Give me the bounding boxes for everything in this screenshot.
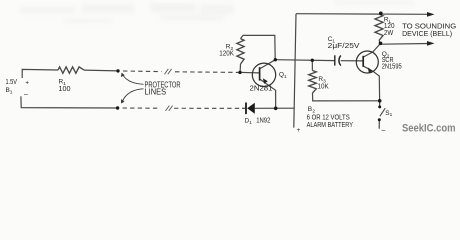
- svg-text:1: 1: [249, 120, 252, 126]
- svg-text:6 OR 12 VOLTS: 6 OR 12 VOLTS: [307, 115, 350, 122]
- svg-text:ALARM BATTERY: ALARM BATTERY: [307, 122, 354, 129]
- svg-text:2N281: 2N281: [250, 86, 273, 93]
- svg-text:1: 1: [390, 112, 393, 118]
- svg-text:+: +: [297, 127, 301, 134]
- svg-text:2W: 2W: [384, 30, 394, 37]
- svg-text:LINES: LINES: [145, 88, 167, 97]
- svg-text:B: B: [308, 106, 312, 113]
- svg-text:+: +: [25, 79, 29, 86]
- svg-text:1.5V: 1.5V: [6, 79, 18, 86]
- svg-text:1N92: 1N92: [256, 118, 270, 125]
- svg-text:10K: 10K: [318, 84, 329, 91]
- svg-text:SeekIC.com: SeekIC.com: [402, 122, 456, 134]
- svg-text:DEVICE (BELL): DEVICE (BELL): [402, 29, 452, 38]
- svg-text:1: 1: [284, 74, 287, 80]
- svg-text:–: –: [24, 91, 28, 98]
- svg-text:120K: 120K: [219, 50, 234, 57]
- svg-text:2μF/25V: 2μF/25V: [328, 43, 360, 50]
- svg-text:2: 2: [312, 108, 315, 114]
- svg-text:1: 1: [10, 90, 13, 96]
- svg-text:–: –: [382, 127, 386, 134]
- svg-text:100: 100: [59, 86, 71, 93]
- svg-text:120: 120: [384, 23, 395, 30]
- svg-text:2N1595: 2N1595: [382, 63, 402, 70]
